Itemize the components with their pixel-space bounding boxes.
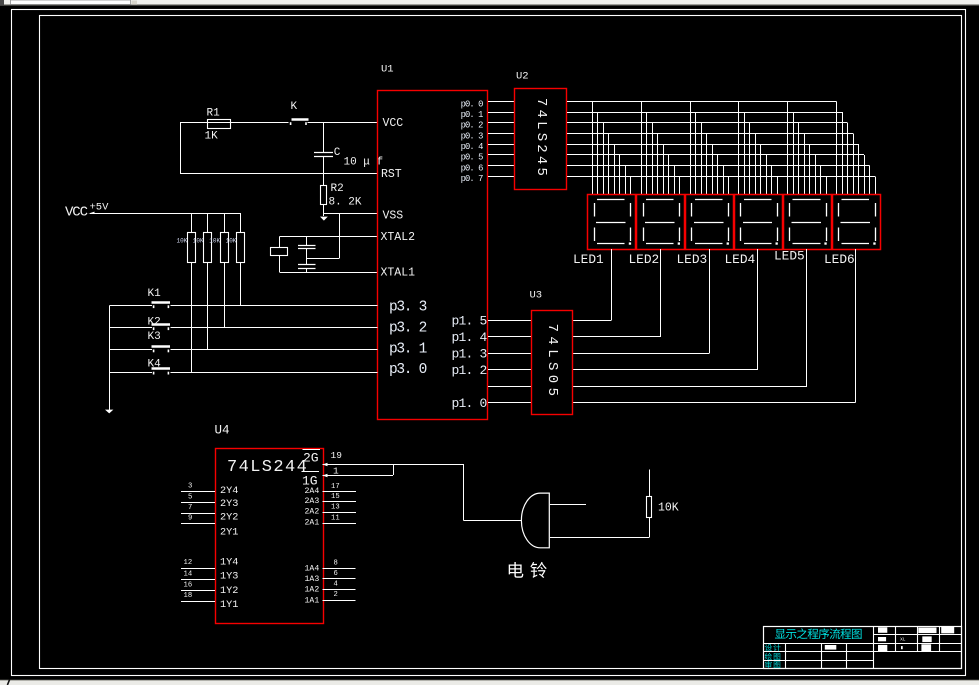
- wire bus rail p0.1: [567, 112, 842, 114]
- display LED5 segment c: [826, 228, 828, 242]
- title block blob design cell: [825, 645, 837, 650]
- wire LED2 common down: [660, 249, 662, 337]
- resistor pullup 10K #1 lead bottom: [191, 263, 193, 373]
- svg-text:R2: R2: [331, 183, 344, 195]
- svg-text:p0. 2: p0. 2: [461, 121, 484, 131]
- resistor 10K lead top: [649, 470, 651, 497]
- svg-text:1Y3: 1Y3: [220, 572, 238, 583]
- display LED4 decimal point: [776, 242, 778, 244]
- display LED4 segment b: [777, 203, 779, 217]
- svg-text:VCC: VCC: [383, 117, 404, 130]
- display LED4 segment d: [744, 243, 772, 245]
- wire LED6 segment pin 4 drop: [853, 134, 855, 195]
- svg-text:1K: 1K: [205, 131, 219, 143]
- wire U3 out row6 to LED6: [572, 402, 856, 404]
- crystal Y1 body: [271, 248, 288, 256]
- wire LED3 segment pin 1 drop: [690, 102, 692, 195]
- resistor pullup 10K #3 lead top: [224, 213, 226, 233]
- wire LED1 segment pin 7 drop: [625, 166, 627, 195]
- resistor pullup 10K #3: [221, 233, 229, 263]
- display LED6 segment b: [875, 203, 877, 217]
- wire VCC net: R1 top rail to U1 VCC: [180, 122, 289, 124]
- title block main divider: [873, 626, 875, 669]
- wire key row K3 left: [110, 349, 153, 351]
- top strip small button: [132, 1, 138, 5]
- title block blob r3c3: [921, 644, 931, 651]
- capacitor C1 plates: [298, 245, 316, 247]
- resistor pullup 10K #1: [188, 233, 196, 263]
- wire LED4 segment pin 4 drop: [755, 134, 757, 195]
- svg-text:10K: 10K: [209, 237, 220, 244]
- wire bus rail p0.6: [567, 165, 870, 167]
- svg-text:6: 6: [334, 570, 338, 578]
- wire LED2 segment pin 1 drop: [641, 102, 643, 195]
- svg-text:2A4: 2A4: [305, 487, 320, 496]
- wire key row K4 right: [171, 372, 378, 374]
- svg-text:8: 8: [334, 559, 338, 567]
- svg-text:1A4: 1A4: [305, 565, 320, 574]
- svg-text:LED5: LED5: [774, 249, 805, 264]
- title block left col dividers: [785, 643, 787, 669]
- svg-text:LED3: LED3: [677, 252, 708, 267]
- capacitor C plates: [314, 152, 333, 154]
- svg-text:LED6: LED6: [824, 252, 855, 267]
- wire U4 pin 8 stub: [323, 568, 356, 570]
- wire LED4 segment pin 5 drop: [760, 144, 762, 195]
- title block blob r3c1: [878, 645, 887, 651]
- wire key row K3 right: [171, 349, 378, 351]
- wire LED6 segment pin 5 drop: [858, 144, 860, 195]
- display LED2 segment a: [646, 199, 674, 201]
- wire pin19 net down: [463, 464, 465, 521]
- title block blob r1c3: [918, 628, 936, 634]
- wire LED5 segment pin 1 drop: [787, 102, 789, 195]
- wire U3 out row1 to LED1: [572, 320, 611, 322]
- display LED2 segment b: [679, 203, 681, 217]
- svg-text:U1: U1: [381, 63, 394, 75]
- display LED6 decimal point: [873, 242, 875, 244]
- wire LED6 segment pin 6 drop: [864, 155, 866, 195]
- title block blob r1c4: [941, 627, 954, 634]
- wire LED4 segment pin 8 drop: [777, 177, 779, 195]
- title block blob r1c1: [878, 627, 887, 633]
- svg-text:K2: K2: [148, 317, 161, 329]
- wire LED4 segment pin 6 drop: [766, 155, 768, 195]
- svg-text:1: 1: [333, 465, 339, 476]
- wire key row K2 left: [110, 327, 153, 329]
- display LED2 box: [637, 195, 685, 250]
- title block left row3 divider: [763, 660, 873, 662]
- wire U4 pin 6 stub: [323, 578, 356, 580]
- +5V rail arrowhead: [88, 212, 94, 214]
- svg-text:19: 19: [331, 450, 343, 461]
- svg-text:1Y1: 1Y1: [220, 600, 238, 611]
- wire U1 p1 row5 to U3: [488, 402, 531, 404]
- wire U1 p0.3 to U2: [488, 133, 515, 135]
- wire LED6 segment pin 1 drop: [836, 102, 838, 195]
- wire U1 p1 row1 to U3: [488, 336, 531, 338]
- wire R1 left vertical: [180, 123, 182, 174]
- svg-text:10K: 10K: [658, 501, 679, 514]
- wire key row K1 right: [171, 305, 378, 307]
- wire LED6 segment pin 2 drop: [842, 112, 844, 195]
- svg-text:U4: U4: [215, 424, 230, 438]
- wire LED4 segment pin 7 drop: [771, 166, 773, 195]
- capacitor C1 lead top: [306, 237, 308, 246]
- resistor R2: [321, 186, 327, 205]
- display LED1 segment a: [597, 199, 625, 201]
- wire bell terminal upper: [550, 504, 586, 506]
- svg-text:7: 7: [188, 504, 192, 512]
- resistor pullup 10K #4 lead bottom: [240, 263, 242, 306]
- wire U4 pin 17 stub: [323, 491, 357, 493]
- label huitu draw: [765, 653, 772, 660]
- wire LED5 segment pin 5 drop: [809, 144, 811, 195]
- svg-text:10K: 10K: [193, 237, 204, 244]
- display LED5 box: [784, 195, 832, 250]
- display LED1 segment b: [630, 203, 632, 217]
- display LED2 segment c: [679, 228, 681, 242]
- svg-text:1A1: 1A1: [305, 596, 320, 605]
- display LED4 segment a: [744, 199, 772, 201]
- label dianling bell text: [509, 562, 524, 578]
- wire key row K2 right: [171, 327, 378, 329]
- svg-text:74LS245: 74LS245: [533, 98, 549, 179]
- capacitor C2 lead bottom: [306, 268, 308, 272]
- wire U1 p1 row4 to U3: [488, 386, 531, 388]
- wire LED4 segment pin 1 drop: [738, 102, 740, 195]
- wire RST net bottom rail: [180, 173, 378, 175]
- svg-text:18: 18: [184, 592, 193, 600]
- display LED6 segment c: [875, 228, 877, 242]
- bottom strip caret: [7, 680, 9, 685]
- wire ground rail left: [109, 306, 111, 411]
- wire LED5 segment pin 2 drop: [793, 112, 795, 195]
- svg-text:2Y4: 2Y4: [220, 486, 238, 497]
- display LED3 segment c: [728, 228, 730, 242]
- svg-text:17: 17: [331, 483, 340, 491]
- svg-text:16: 16: [184, 581, 193, 589]
- wire LED3 segment pin 6 drop: [717, 155, 719, 195]
- top strip left corner mark: [0, 0, 4, 5]
- svg-text:C: C: [334, 147, 341, 159]
- wire U4 pin 4 stub: [323, 589, 356, 591]
- svg-text:XTAL2: XTAL2: [381, 231, 416, 244]
- resistor pullup 10K #2: [204, 233, 212, 263]
- title block right horizontals: [873, 634, 962, 636]
- display LED4 segment e: [740, 228, 742, 242]
- wire LED3 segment pin 7 drop: [723, 166, 725, 195]
- display LED3 segment b: [728, 203, 730, 217]
- resistor pullup 10K #4: [237, 233, 245, 263]
- overline 1G: [302, 471, 320, 473]
- ic U3 box: [532, 311, 573, 415]
- wire +5V rail: [90, 213, 241, 215]
- svg-text:2G: 2G: [303, 450, 319, 465]
- wire LED2 segment pin 3 drop: [652, 123, 654, 195]
- wire LED3 segment pin 8 drop: [728, 177, 730, 195]
- svg-text:2A2: 2A2: [305, 507, 320, 516]
- wire pin1 stub: [323, 475, 394, 477]
- wire LED5 common down: [806, 249, 808, 387]
- wire LED6 segment pin 3 drop: [847, 123, 849, 195]
- wire U1 p1 row2 to U3: [488, 353, 531, 355]
- wire LED1 segment pin 4 drop: [608, 134, 610, 195]
- wire U4 pin 15 stub: [323, 501, 357, 503]
- display LED6 box: [833, 195, 881, 250]
- display LED1 segment g: [596, 222, 626, 224]
- capacitor C lead top: [323, 123, 325, 153]
- display LED2 decimal point: [678, 242, 680, 244]
- svg-text:p1. 2: p1. 2: [451, 363, 486, 378]
- svg-text:p3. 2: p3. 2: [389, 320, 427, 336]
- title block right verticals: [895, 626, 897, 652]
- title block blob r2c1: [878, 637, 886, 641]
- wire U4 pin 9 stub: [181, 523, 215, 525]
- wire to bell input: [464, 520, 522, 522]
- display LED2 segment e: [643, 228, 645, 242]
- switch K2 bar: [152, 323, 171, 325]
- title block blob r3c2: [901, 646, 903, 649]
- svg-text:RST: RST: [381, 168, 402, 181]
- display LED5 segment e: [789, 228, 791, 242]
- svg-text:VSS: VSS: [383, 210, 404, 223]
- display LED3 segment g: [694, 222, 724, 224]
- wire LED3 segment pin 3 drop: [701, 123, 703, 195]
- title text display program flowchart: [775, 629, 786, 639]
- svg-text:5: 5: [188, 494, 192, 502]
- svg-text:1A2: 1A2: [305, 586, 320, 595]
- switch K3 bar: [152, 345, 171, 347]
- pin1 arrowhead: [323, 474, 328, 477]
- svg-text:10K: 10K: [226, 237, 237, 244]
- display LED1 segment c: [630, 228, 632, 242]
- svg-text:15: 15: [331, 493, 340, 501]
- wire U1 p0.5 to U2: [488, 154, 515, 156]
- resistor pullup 10K #2 lead bottom: [207, 263, 209, 351]
- svg-text:2: 2: [334, 591, 338, 599]
- display LED5 segment d: [793, 243, 821, 245]
- svg-text:XL: XL: [900, 636, 906, 642]
- wire LED2 segment pin 4 drop: [657, 134, 659, 195]
- svg-text:10K: 10K: [177, 237, 188, 244]
- wire LED6 common down: [855, 249, 857, 403]
- svg-text:9: 9: [188, 515, 192, 523]
- switch K dots: [290, 122, 292, 125]
- svg-text:p1. 5: p1. 5: [451, 314, 486, 329]
- wire U1 p0.7 to U2: [488, 176, 515, 178]
- switch K bar: [292, 118, 309, 120]
- svg-text:3: 3: [188, 483, 192, 491]
- display LED6 segment e: [838, 228, 840, 242]
- wire LED1 segment pin 3 drop: [603, 123, 605, 195]
- wire LED3 segment pin 5 drop: [712, 144, 714, 195]
- svg-text:XTAL1: XTAL1: [381, 266, 416, 279]
- wire R2 bottom: [323, 204, 325, 216]
- wire U1 p0.0 to U2: [488, 101, 515, 103]
- resistor 10K (bell): [647, 497, 652, 518]
- svg-text:p0. 4: p0. 4: [461, 142, 484, 152]
- wire LED4 segment pin 3 drop: [749, 123, 751, 195]
- wire U1 p0.4 to U2: [488, 144, 515, 146]
- display LED2 segment g: [645, 222, 675, 224]
- wire LED1 segment pin 8 drop: [630, 177, 632, 195]
- wire bus rail p0.3: [567, 133, 853, 135]
- ic U4 box: [216, 449, 324, 624]
- wire RST to R2: [323, 173, 325, 185]
- display LED5 decimal point: [824, 242, 826, 244]
- wire LED4 common down: [757, 249, 759, 370]
- capacitor C lead bottom: [323, 157, 325, 173]
- resistor pullup 10K #2 lead top: [207, 213, 209, 233]
- wire LED5 segment pin 8 drop: [826, 177, 828, 195]
- display LED4 segment c: [777, 228, 779, 242]
- resistor 10K lead bottom: [649, 518, 651, 538]
- svg-text:R1: R1: [207, 107, 221, 119]
- top strip text field: [11, 0, 131, 5]
- wire LED1 segment pin 2 drop: [597, 112, 599, 195]
- wire U4 pin 14 stub: [181, 579, 215, 581]
- display LED3 segment e: [691, 228, 693, 242]
- ground arrow left: [105, 410, 113, 414]
- display LED5 segment f: [789, 203, 791, 217]
- ic U2 box: [515, 89, 567, 190]
- ic U1 box: [378, 91, 488, 420]
- wire LED6 segment pin 7 drop: [869, 166, 871, 195]
- svg-text:8. 2K: 8. 2K: [329, 196, 362, 208]
- svg-text:p0. 5: p0. 5: [461, 153, 484, 163]
- wire bus rail p0.5: [567, 154, 864, 156]
- wire bus rail p0.7: [567, 176, 875, 178]
- label shentu review: [765, 661, 772, 668]
- wire LED1 segment pin 1 drop: [592, 102, 594, 195]
- display LED1 decimal point: [629, 242, 631, 244]
- display LED1 segment d: [597, 243, 625, 245]
- switch K3 dots: [153, 350, 155, 353]
- display LED5 segment g: [792, 222, 822, 224]
- svg-text:p3. 0: p3. 0: [389, 362, 427, 378]
- wire LED5 segment pin 4 drop: [804, 134, 806, 195]
- display LED1 segment e: [594, 228, 596, 242]
- svg-text:U2: U2: [516, 71, 529, 83]
- svg-text:p0. 1: p0. 1: [461, 110, 484, 120]
- svg-text:1Y2: 1Y2: [220, 586, 238, 597]
- svg-text:74LS244: 74LS244: [227, 458, 308, 477]
- switch K2 dots: [153, 327, 155, 330]
- svg-text:4: 4: [334, 581, 338, 589]
- display LED3 decimal point: [727, 242, 729, 244]
- wire VSS branch down to caps midpoint: [339, 214, 341, 259]
- display LED6 segment g: [841, 222, 871, 224]
- wire caps midpoint horizontal: [307, 258, 340, 260]
- svg-text:74LS05: 74LS05: [544, 324, 560, 401]
- wire U3 out row3 to LED3: [572, 353, 709, 355]
- display LED1 box: [588, 195, 636, 250]
- wire U4 pin 2 stub: [323, 600, 356, 602]
- switch K4 dots: [153, 372, 155, 375]
- wire LED5 segment pin 6 drop: [815, 155, 817, 195]
- wire U1 p0.2 to U2: [488, 122, 515, 124]
- wire U4 pin 12 stub: [181, 568, 215, 570]
- svg-text:K1: K1: [148, 288, 162, 300]
- display LED2 segment f: [643, 203, 645, 217]
- wire VSS net: [324, 213, 378, 215]
- svg-text:p0. 0: p0. 0: [461, 99, 484, 109]
- svg-text:VCC: VCC: [65, 204, 88, 220]
- switch K1 dots: [153, 305, 155, 308]
- display LED6 segment f: [838, 203, 840, 217]
- wire bus rail p0.4: [567, 144, 859, 146]
- svg-text:2Y3: 2Y3: [220, 499, 238, 510]
- svg-text:K3: K3: [148, 331, 161, 343]
- wire bus rail p0.2: [567, 122, 848, 124]
- display LED5 segment b: [826, 203, 828, 217]
- svg-text:p0. 3: p0. 3: [461, 131, 484, 141]
- wire bus rail p0.0: [567, 101, 837, 103]
- display LED3 segment a: [695, 199, 723, 201]
- svg-text:LED1: LED1: [573, 252, 604, 267]
- wire C1 to midpoint rail: [306, 249, 308, 265]
- wire LED2 segment pin 7 drop: [674, 166, 676, 195]
- svg-text:p3. 3: p3. 3: [389, 299, 427, 315]
- display LED3 segment d: [695, 243, 723, 245]
- wire LED2 segment pin 5 drop: [663, 144, 665, 195]
- wire XTAL1 net: [280, 272, 378, 274]
- display LED4 box: [735, 195, 783, 250]
- svg-text:K: K: [291, 101, 298, 113]
- svg-text:p1. 4: p1. 4: [451, 330, 487, 345]
- title block outer: [764, 627, 962, 669]
- display LED3 segment f: [691, 203, 693, 217]
- wire U4 pin 16 stub: [181, 590, 215, 592]
- wire pin1 up to pin19 net: [393, 464, 395, 475]
- resistor pullup 10K #3 lead bottom: [224, 263, 226, 328]
- title block blob r2c3: [922, 636, 931, 642]
- svg-text:U3: U3: [530, 290, 543, 302]
- wire LED1 common down: [611, 249, 613, 321]
- display LED5 segment a: [793, 199, 821, 201]
- svg-text:p1. 3: p1. 3: [451, 347, 486, 362]
- wire U3 out row4 to LED4: [572, 369, 758, 371]
- display LED2 segment d: [646, 243, 674, 245]
- wire U3 out row5 to LED5: [572, 386, 807, 388]
- wire U4 pin 5 stub: [181, 502, 215, 504]
- title block left title row divider: [763, 643, 873, 645]
- wire LED3 segment pin 4 drop: [706, 134, 708, 195]
- wire XTAL2 net: [280, 236, 378, 238]
- resistor R1: [208, 120, 231, 129]
- wire key row K4 left: [110, 372, 153, 374]
- resistor pullup 10K #4 lead top: [240, 213, 242, 233]
- wire LED5 segment pin 3 drop: [798, 123, 800, 195]
- display LED6 segment a: [842, 199, 870, 201]
- display LED1 segment f: [594, 203, 596, 217]
- wire LED2 segment pin 6 drop: [668, 155, 670, 195]
- wire LED1 segment pin 6 drop: [619, 155, 621, 195]
- wire key row K1 left: [110, 305, 153, 307]
- svg-text:p1. 0: p1. 0: [451, 396, 486, 411]
- wire U1 p0.6 to U2: [488, 165, 515, 167]
- wire U4 pin 3 stub: [181, 491, 215, 493]
- display LED4 segment g: [743, 222, 772, 224]
- svg-text:2A1: 2A1: [305, 519, 320, 528]
- wire LED2 segment pin 2 drop: [646, 112, 648, 195]
- svg-text:11: 11: [331, 515, 340, 523]
- svg-text:p3. 1: p3. 1: [389, 341, 427, 357]
- svg-text:13: 13: [331, 504, 340, 512]
- crystal Y1 lead top: [279, 237, 281, 248]
- wire LED3 common down: [709, 249, 711, 354]
